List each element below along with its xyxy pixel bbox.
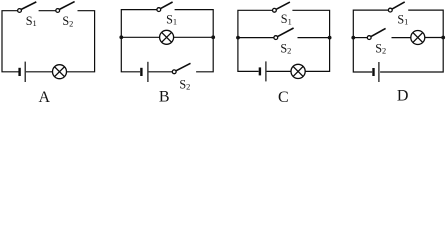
wire: circuit A top middle segment (39, 10, 56, 12)
switch S1 (circuit C) pivot + lever (273, 2, 290, 12)
wire: circuit A right side (top-right, right vertical, bottom-right) (67, 11, 95, 72)
junction node: circuit D middle-right (441, 36, 445, 40)
svg-text:S2: S2 (280, 42, 291, 56)
wire: circuit D switch S2 to lamp (392, 37, 411, 39)
wire: circuit B middle-left to lamp (121, 36, 159, 38)
battery (circuit A): short thick negative plate (18, 68, 20, 76)
svg-text:A: A (39, 89, 51, 106)
battery (circuit B): long thin positive plate (147, 62, 149, 82)
wire: circuit A battery to lamp (26, 71, 53, 73)
wire: circuit D middle-left to switch S2 (353, 37, 367, 39)
switch S2 (circuit C) pivot + lever (274, 28, 294, 39)
battery (circuit C): short thick negative plate (259, 67, 261, 75)
battery (circuit B): short thick negative plate (140, 68, 142, 76)
wire: circuit B right side (top-right, right vertical, bottom-right) (175, 10, 214, 72)
wire: circuit D lamp to middle-right (425, 37, 443, 39)
switch S1 (circuit B) pivot + lever (157, 2, 173, 12)
junction node: circuit C middle-right (328, 36, 332, 40)
wire: circuit D left side (top-left, left vertical, bottom-left) (353, 10, 388, 72)
wire: circuit B left side (top-left, left vertical, bottom-left) (121, 10, 156, 72)
battery (circuit C): long thin positive plate (265, 61, 267, 81)
switch S2 (circuit A) pivot + lever (56, 2, 75, 13)
wire: circuit C middle-left to switch S2 (238, 37, 274, 39)
wire: circuit C battery to lamp (267, 70, 291, 72)
battery (circuit A): long thin positive plate (24, 62, 26, 82)
junction node: circuit C middle-left (236, 36, 240, 40)
wire: circuit C right side (top-right, right vertical, bottom-right) (292, 10, 329, 71)
wire: circuit D right side (top-right, right vertical, bottom-right) (380, 10, 443, 72)
wire: circuit C left side (top-left, left vertical, bottom-left) (238, 10, 272, 71)
junction node: circuit B middle-left (119, 35, 123, 39)
svg-text:D: D (397, 88, 409, 105)
svg-text:S1: S1 (26, 14, 37, 28)
wire: circuit B battery to switch S2 (149, 71, 173, 73)
battery (circuit D): long thin positive plate (378, 62, 380, 82)
svg-text:S1: S1 (166, 13, 177, 27)
switch S1 (circuit A) pivot + lever (18, 2, 37, 13)
svg-text:S1: S1 (397, 12, 408, 26)
switch S2 (circuit D) pivot + lever (367, 28, 385, 39)
svg-text:S2: S2 (62, 14, 73, 28)
svg-text:S2: S2 (179, 77, 190, 91)
lamp (circuit A) circle with X (53, 65, 67, 79)
battery (circuit D): short thick negative plate (372, 68, 374, 76)
svg-text:S1: S1 (281, 12, 292, 26)
junction node: circuit B middle-right (211, 35, 215, 39)
lamp (circuit C) circle with X (291, 64, 305, 78)
svg-text:B: B (159, 88, 170, 105)
switch S1 (circuit D) pivot + lever (388, 2, 404, 12)
lamp (circuit B) circle with X (160, 30, 174, 44)
wire: circuit B lamp to middle-right (174, 36, 214, 38)
lamp (circuit D) circle with X (411, 31, 425, 45)
junction node: circuit D middle-left (351, 36, 355, 40)
wire: circuit A left side (top-left, left vertical, bottom-left) (2, 11, 19, 72)
wire: circuit C switch S2 to middle-right (298, 37, 330, 39)
svg-text:S2: S2 (375, 42, 386, 56)
switch S2 (circuit B) pivot + lever (172, 63, 190, 73)
svg-text:C: C (278, 89, 289, 106)
